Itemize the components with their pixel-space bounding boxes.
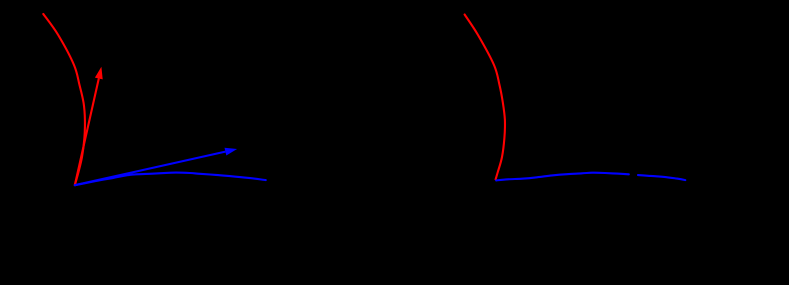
left panel red vector arrowhead [95,67,103,80]
right panel blue geodesic curve segment A [496,173,629,181]
right panel blue geodesic curve segment B [638,175,685,180]
left panel blue geodesic curve [75,173,266,186]
left panel red vector arrow shaft [75,79,99,186]
left panel red geodesic curve [43,14,85,185]
left panel blue vector arrowhead [225,148,238,156]
right panel red geodesic curve [465,15,505,180]
left panel blue vector arrow shaft [75,152,226,186]
